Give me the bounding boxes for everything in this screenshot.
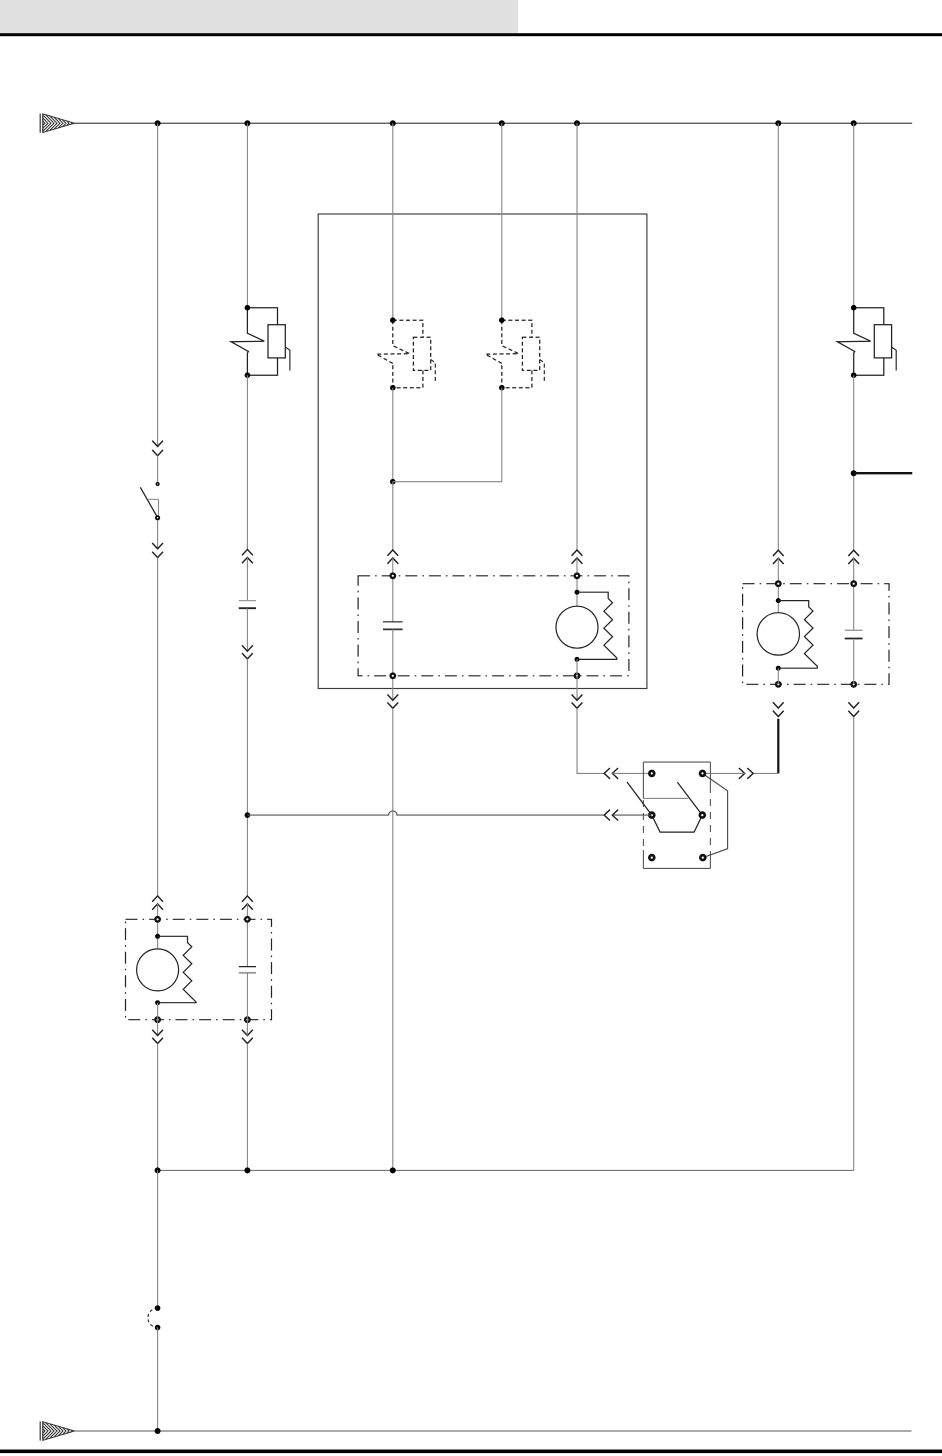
node (box terminal) (244, 1016, 251, 1023)
relay terminal 3 (648, 811, 656, 819)
wire (392, 388, 394, 482)
wire (576, 123, 578, 550)
relay blade 2 (677, 782, 702, 815)
capacitor C4 (239, 967, 256, 973)
wire (246, 375, 248, 549)
connector (double chevron) (242, 549, 253, 555)
wire (703, 772, 745, 774)
connector (double chevron) (773, 702, 784, 708)
relay external link (87a) (703, 773, 728, 857)
connector (double chevron) (739, 768, 745, 779)
thermal circuit breaker F4 (837, 305, 896, 378)
wire (853, 375, 855, 550)
wire (157, 520, 159, 549)
connector (double chevron) (572, 695, 583, 701)
connector (double chevron) (152, 441, 163, 447)
continuation arrow (top supply) (40, 114, 74, 133)
wire: top supply bus (75, 122, 913, 124)
wire: feed stub (heavy) (854, 472, 913, 474)
relay terminal 4 (699, 811, 707, 819)
node M3j (390, 1167, 396, 1173)
connector (double chevron) (152, 896, 163, 902)
wire (246, 558, 248, 601)
wire (to relay 87) (577, 708, 604, 773)
node T5 (junction on top bus) (574, 120, 580, 126)
node (box terminal) (154, 916, 161, 923)
capacitor C2 (383, 622, 403, 630)
node T2 (junction on top bus) (244, 120, 250, 126)
resistor R1 (motor suppression) (577, 592, 617, 659)
wire (777, 668, 779, 684)
top rule (0, 33, 942, 36)
node T4 (junction on top bus) (499, 120, 505, 126)
wire (612, 772, 652, 774)
wire (392, 558, 394, 622)
blower motor assembly box (dash-dot) (358, 576, 629, 676)
connector (double chevron) (604, 810, 610, 821)
bottom rule (0, 1450, 942, 1454)
relay blade 1 (627, 782, 652, 815)
wire (246, 904, 248, 967)
connector (double chevron) (152, 1030, 163, 1036)
inline connector X1 (148, 1305, 161, 1330)
connector (double chevron) (242, 1030, 253, 1036)
node M2j (244, 1167, 250, 1173)
wire (392, 482, 394, 550)
motor M2 (757, 598, 799, 671)
connector (double chevron) (152, 543, 163, 549)
wire: relay feed from node A (hops over X3) (247, 811, 604, 815)
node T1 (junction on top bus) (155, 120, 161, 126)
wire (753, 772, 778, 774)
wire (853, 639, 855, 685)
wire (246, 659, 248, 896)
thermal circuit breaker F2 (dashed) (376, 317, 435, 390)
wire (246, 973, 248, 1020)
wire (853, 558, 855, 630)
wire (246, 1020, 248, 1036)
node T6 (junction on top bus) (775, 120, 781, 126)
node B (junction) (390, 479, 396, 485)
connector (double chevron) (848, 550, 859, 556)
connector (double chevron) (387, 695, 398, 701)
relay terminal 6 (699, 854, 707, 862)
switch S1 (140, 482, 160, 521)
capacitor C1 (239, 601, 256, 609)
wire (157, 456, 159, 482)
motor M3 (137, 934, 179, 1005)
node A (junction to relay feed) (245, 812, 251, 818)
node M1j (155, 1167, 161, 1173)
wire (246, 608, 248, 651)
condenser fan assembly box (dash-dot) (743, 584, 889, 685)
header bar (0, 0, 518, 33)
wire (853, 123, 855, 308)
node (box terminal) (850, 580, 857, 587)
wire (853, 717, 855, 1171)
wire (612, 814, 652, 816)
wire (246, 1044, 248, 1171)
connector (double chevron) (848, 702, 859, 708)
wire (157, 558, 159, 896)
wire (157, 1003, 159, 1036)
relay fixed contact (643, 797, 688, 799)
control unit box U1 (318, 214, 647, 689)
relay bridge contact (652, 815, 703, 832)
wire (246, 123, 248, 308)
node C (feed junction) (851, 470, 857, 476)
connector (double chevron) (604, 768, 610, 779)
node (box terminal) (850, 681, 857, 688)
resistor R2 (motor suppression) (778, 601, 817, 669)
node T3 (junction on top bus) (390, 120, 396, 126)
wire (392, 708, 394, 1170)
wire (777, 558, 779, 613)
wire (157, 1044, 159, 1171)
wiper motor assembly box (dash-dot) (126, 919, 272, 1019)
node (box terminal) (389, 672, 396, 679)
continuation arrow (ground) (40, 1421, 74, 1440)
wire (777, 123, 779, 550)
relay terminal 5 (648, 854, 656, 862)
motor M1 (556, 590, 598, 662)
node (box terminal) (244, 916, 251, 923)
connector (double chevron) (387, 550, 398, 556)
wire (157, 1328, 159, 1432)
node (box terminal) (389, 572, 396, 579)
connector (double chevron) (242, 896, 253, 902)
relay terminal 2 (699, 770, 707, 778)
thermal circuit breaker F1 (231, 305, 290, 378)
wire (157, 123, 159, 446)
wire (heavy, to relay 30) (777, 719, 779, 774)
node (box terminal) (775, 681, 782, 688)
connector (double chevron) (572, 550, 583, 556)
wire (576, 659, 578, 700)
wire (392, 629, 394, 700)
relay K1 housing (643, 762, 710, 868)
wire (392, 123, 394, 320)
wire (576, 558, 578, 606)
wire (501, 123, 503, 320)
node G1 (155, 1428, 161, 1434)
wire: return bus (158, 1169, 854, 1171)
node (box terminal) (574, 572, 581, 579)
node (box terminal) (154, 1016, 161, 1023)
node T7 (junction on top bus) (851, 120, 857, 126)
node (box terminal) (775, 580, 782, 587)
node (box terminal) (574, 672, 581, 679)
wire (F3 return to node B) (393, 388, 502, 482)
connector (double chevron) (773, 550, 784, 556)
connector (double chevron) (242, 645, 253, 651)
wire (157, 1170, 159, 1308)
thermal circuit breaker F3 (dashed) (485, 317, 544, 390)
wire: bottom ground bus (75, 1430, 912, 1432)
relay terminal 1 (648, 770, 656, 778)
capacitor C3 (845, 630, 863, 638)
resistor R3 (motor suppression) (158, 936, 197, 1002)
wire (157, 904, 159, 949)
